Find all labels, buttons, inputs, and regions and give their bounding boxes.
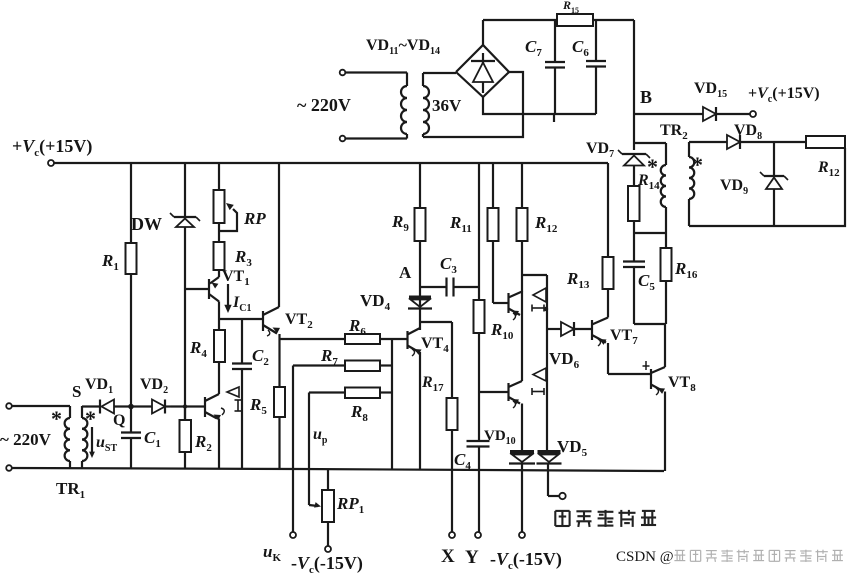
- label TR1: [56, 479, 85, 501]
- diode VD2: [152, 400, 165, 414]
- bridge rectifier VD11~VD14: [456, 45, 509, 97]
- wire VT6 emitter down: [521, 404, 523, 453]
- label VD1: [85, 376, 113, 396]
- resistor R15: [557, 14, 593, 26]
- wire VD9 bottom: [773, 189, 775, 226]
- wire top dc rail left: [483, 19, 557, 21]
- label B: [640, 87, 652, 107]
- label C7: [525, 37, 542, 59]
- wire R8 left: [309, 391, 345, 393]
- diode VD1: [100, 400, 114, 414]
- wire TR1 to VD1: [82, 405, 99, 407]
- node X terminal: [449, 532, 455, 538]
- wire VT7 collector: [607, 289, 609, 318]
- label C1: [144, 428, 161, 450]
- transformer T-top secondary: [423, 73, 429, 137]
- label R13: [566, 269, 590, 291]
- svg-text:Y: Y: [465, 547, 479, 568]
- svg-text:*: *: [647, 154, 658, 179]
- label -Vc(-15V) left: [291, 553, 363, 574]
- label VT7: [610, 327, 638, 347]
- node blocking terminal: [559, 493, 565, 499]
- label asterisk TR1 secondary: [85, 406, 96, 431]
- wire bridge minus down: [483, 97, 596, 114]
- label VD5: [557, 437, 588, 459]
- resistor R13: [603, 163, 614, 289]
- svg-text:+Vc(+15V): +Vc(+15V): [12, 136, 92, 159]
- label blocking signal text: [555, 510, 656, 527]
- label VD4: [360, 291, 391, 313]
- label R12: [534, 213, 558, 235]
- resistor R14: [628, 165, 640, 221]
- label VT8: [668, 374, 696, 394]
- wire R7 right: [380, 364, 392, 366]
- label RP1: [336, 494, 364, 516]
- wire RP1 wiper: [309, 502, 321, 508]
- mark VT5 tick: [532, 305, 548, 312]
- resistor R12 output: [806, 136, 845, 148]
- node uK terminal: [290, 532, 296, 538]
- wire secondary bottom: [423, 72, 523, 137]
- label asterisk TR1 primary: [51, 406, 62, 431]
- label R4: [189, 338, 207, 360]
- svg-text:*: *: [85, 406, 96, 431]
- capacitor C6: [586, 20, 606, 114]
- wire VD15 to +Vc out: [716, 113, 750, 115]
- node Y terminal: [475, 532, 481, 538]
- mark VT3 triangle: [227, 387, 239, 397]
- wire RP column top: [218, 163, 220, 190]
- resistor R10: [474, 163, 485, 392]
- capacitor C2: [232, 319, 252, 468]
- diode VD8: [727, 135, 740, 149]
- wire bridge plus up: [482, 20, 484, 45]
- label DW: [131, 214, 162, 234]
- wire VT2 emitter to R6: [280, 338, 346, 340]
- label C6: [572, 37, 589, 59]
- transistor VT7: [592, 318, 608, 347]
- diode VD4: [408, 297, 432, 309]
- wire ladder bracket: [391, 339, 393, 470]
- label R15: [562, 0, 579, 15]
- svg-text:A: A: [399, 263, 412, 282]
- svg-text:S: S: [72, 382, 81, 401]
- label VD15: [694, 80, 727, 100]
- label R12 output: [817, 159, 840, 179]
- wire AC2 top: [12, 405, 70, 407]
- mark VT3 tick: [235, 400, 242, 411]
- zener diode VD5: [537, 452, 562, 464]
- node -Vc terminal right: [519, 532, 525, 538]
- diode VD15: [703, 107, 716, 121]
- label VD11~VD14: [366, 37, 440, 57]
- mark VT6 triangle: [533, 368, 546, 381]
- label Q: [113, 412, 125, 429]
- svg-text:X: X: [441, 546, 455, 567]
- transistor VT5: [509, 292, 523, 321]
- wire top dc rail right: [593, 19, 634, 21]
- capacitor C4: [467, 392, 490, 532]
- label R6: [348, 316, 366, 338]
- label VD9: [720, 177, 748, 197]
- wire blocking stub: [548, 464, 559, 497]
- resistor R8: [345, 388, 380, 399]
- resistor R7: [345, 361, 380, 372]
- transistor VT3: [171, 394, 224, 420]
- label C3: [440, 254, 457, 276]
- label VD8: [734, 122, 762, 142]
- label VD2: [140, 376, 168, 396]
- wire AC bottom: [345, 137, 407, 139]
- resistor R11: [488, 163, 499, 303]
- node AC2 terminal top: [6, 403, 12, 409]
- transformer TR1 primary: [65, 406, 70, 468]
- label asterisk TR2 primary: [647, 154, 658, 179]
- svg-text:~ 220V: ~ 220V: [0, 430, 52, 449]
- label TR2: [660, 122, 688, 142]
- potentiometer RP: [214, 190, 238, 231]
- resistor R4: [214, 330, 225, 362]
- label +Vc(+15V) right: [748, 85, 820, 105]
- label R1: [101, 251, 119, 273]
- svg-text:-Vc(-15V): -Vc(-15V): [490, 549, 562, 572]
- mark VT8 tick: [643, 361, 650, 370]
- label -Vc(-15V) right: [490, 549, 562, 572]
- label R17: [421, 374, 444, 394]
- svg-text:*: *: [692, 152, 703, 177]
- mark VT5 triangle: [533, 288, 546, 302]
- label ~220V bottom: [0, 430, 52, 449]
- label R2: [194, 432, 212, 454]
- node +Vc(+15V) output terminal: [750, 111, 756, 117]
- label VT4: [421, 335, 449, 355]
- wire uK column: [292, 366, 294, 533]
- wire VT1 collector: [218, 302, 220, 331]
- resistor R17: [447, 322, 458, 532]
- resistor R6: [345, 334, 380, 344]
- wire R14 bottom: [633, 221, 635, 233]
- transistor VT2: [263, 307, 280, 336]
- label RP: [243, 209, 266, 228]
- label uST: [96, 434, 117, 454]
- label VD7: [586, 140, 614, 160]
- label watermark CSDN: [616, 549, 843, 565]
- transformer TR2 secondary winding: [689, 142, 694, 226]
- zener diode VD9: [760, 172, 788, 189]
- node R2 junction: [183, 404, 187, 408]
- label R14: [637, 172, 660, 192]
- svg-text:*: *: [51, 406, 62, 431]
- wire AC top: [345, 71, 407, 73]
- wire VD10 to terminal: [521, 464, 523, 533]
- potentiometer RP1: [322, 470, 334, 546]
- label C4: [454, 450, 471, 472]
- transistor VT6: [509, 381, 523, 408]
- resistor R12: [517, 163, 528, 292]
- svg-text:~ 220V: ~ 220V: [297, 95, 351, 115]
- svg-text:36V: 36V: [432, 96, 462, 115]
- node AC terminal bottom: [340, 136, 346, 142]
- wire VT8 emitter to bus: [664, 392, 666, 472]
- resistor R1: [126, 163, 137, 404]
- wire R7 left: [293, 364, 345, 366]
- wire VD9 column: [773, 142, 775, 175]
- capacitor C5: [623, 233, 665, 324]
- transistor VT8: [651, 367, 665, 395]
- wire VT5 collector tee: [522, 274, 547, 276]
- label S: [72, 382, 81, 401]
- wire VD1 to Q: [114, 405, 152, 407]
- arrow IC1: [224, 284, 231, 313]
- label VT2: [285, 311, 313, 331]
- label R5: [249, 395, 267, 417]
- mark VT6 tick: [532, 388, 544, 395]
- transistor VT4: [408, 328, 422, 356]
- resistor R5: [274, 387, 285, 468]
- label R10: [490, 320, 514, 342]
- wire bottom common bus: [12, 468, 664, 471]
- wire VD4 to VT4: [419, 308, 421, 331]
- wire to TR2 primary bottom: [634, 232, 666, 234]
- wire DW column bottom: [184, 227, 186, 420]
- node AC terminal top: [340, 70, 346, 76]
- wire up column: [308, 393, 310, 506]
- label R7: [320, 346, 338, 368]
- label VT1: [222, 268, 250, 288]
- wire VT3 emitter to bus: [218, 419, 220, 469]
- label X: [441, 546, 455, 567]
- label A: [399, 263, 412, 282]
- wire TR2 secondary top: [689, 141, 727, 143]
- zener diode VD7: [618, 150, 650, 166]
- svg-text:Q: Q: [113, 412, 125, 429]
- label VD6: [549, 349, 580, 371]
- resistor R9: [415, 163, 426, 296]
- wire R6 to VT4 base: [380, 338, 407, 340]
- wire VT7 emitter down: [608, 343, 651, 374]
- label R16: [674, 259, 698, 281]
- label up: [313, 426, 328, 446]
- diode VD6: [547, 322, 592, 336]
- wire VT4 collector to R17: [420, 321, 452, 323]
- svg-text:-Vc(-15V): -Vc(-15V): [291, 553, 363, 574]
- node -Vc terminal left: [325, 546, 331, 552]
- wire VT2 base link: [219, 318, 263, 320]
- node +Vc supply terminal: [48, 160, 54, 166]
- label R8: [350, 402, 368, 424]
- wire VT3 collector: [218, 362, 220, 394]
- wire center stub: [553, 114, 555, 122]
- wire VT2 collector to rail: [278, 163, 280, 307]
- label R11: [449, 213, 472, 235]
- transistor VT1: [185, 270, 219, 302]
- arrow uST: [89, 427, 95, 458]
- wire secondary top to bridge: [423, 72, 456, 74]
- wire R8 right: [380, 391, 392, 393]
- svg-text:RP: RP: [243, 209, 266, 228]
- resistor R2: [180, 407, 192, 469]
- capacitor C3: [420, 278, 479, 297]
- label IC1: [232, 294, 251, 314]
- wire VT6 base: [479, 391, 509, 393]
- zener diode DW: [170, 213, 200, 227]
- label asterisk TR2 secondary: [692, 152, 703, 177]
- wire VD2 to VT3 base: [165, 405, 171, 407]
- transformer T-top primary: [401, 73, 407, 139]
- label R9: [391, 212, 409, 234]
- node Q: [128, 404, 134, 410]
- resistor R3: [214, 223, 225, 270]
- wire TR2 primary top tee: [634, 142, 666, 144]
- svg-text:B: B: [640, 87, 652, 107]
- svg-text:DW: DW: [131, 214, 162, 234]
- label uK: [263, 542, 281, 564]
- transformer TR2 primary winding: [661, 143, 666, 233]
- zener diode VD10: [509, 452, 535, 464]
- wire VT5 base: [493, 302, 509, 304]
- label Y: [465, 547, 479, 568]
- transformer TR1 secondary: [82, 406, 87, 468]
- wire DW column top: [184, 163, 186, 216]
- wire B column: [633, 20, 635, 150]
- label +Vc(+15V): [12, 136, 92, 159]
- label 36V: [432, 96, 462, 115]
- wire VT8 collector column: [664, 324, 666, 367]
- label R3: [234, 247, 252, 269]
- wire VT5 to VT6: [521, 292, 523, 382]
- resistor R16: [661, 233, 672, 324]
- wire emitter bus column: [546, 275, 548, 452]
- label ~220V top source: [297, 95, 351, 115]
- label VD10: [484, 428, 516, 447]
- wire +Vc(+15V) rail: [54, 162, 608, 164]
- wire VD8 to R12: [740, 141, 806, 143]
- capacitor C1: [121, 407, 141, 469]
- label C5: [638, 271, 655, 293]
- wire output loop right: [689, 148, 845, 226]
- wire VT2 emitter down: [278, 334, 280, 387]
- svg-text:CSDN @: CSDN @: [616, 549, 674, 565]
- wire VT4 emitter down: [419, 352, 421, 470]
- wire B node to VD15: [634, 113, 703, 115]
- node AC2 terminal bottom: [6, 465, 12, 471]
- label C2: [252, 346, 269, 368]
- capacitor C7: [545, 20, 565, 114]
